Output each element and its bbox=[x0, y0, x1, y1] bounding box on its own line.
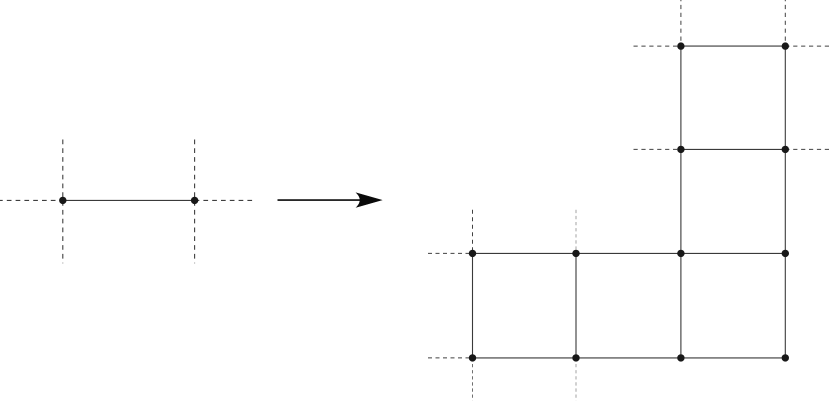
dashed grid extension left of node P1 bbox=[0, 199, 63, 201]
wire: horizontal edge C-D bbox=[681, 148, 785, 150]
node I bbox=[469, 354, 476, 361]
arrow shaft bbox=[278, 199, 368, 201]
node B bbox=[782, 42, 789, 49]
node E bbox=[469, 250, 476, 257]
node D bbox=[782, 146, 789, 153]
wire: vertical line B-D-H-L bbox=[784, 46, 786, 358]
node A bbox=[677, 42, 684, 49]
dashed vertical grid line through node P2 bbox=[194, 140, 196, 264]
dashed extension up from node A bbox=[680, 0, 682, 46]
node P1 bbox=[59, 197, 66, 204]
node F bbox=[572, 250, 579, 257]
wire: vertical line A-C-G-K bbox=[680, 46, 682, 358]
dashed extension right of node D bbox=[785, 148, 830, 150]
dashed grid extension right of node P2 bbox=[195, 199, 254, 201]
dashed extension left of node C bbox=[634, 148, 681, 150]
dashed extension up from node B bbox=[784, 0, 786, 46]
dashed extension left of node A bbox=[634, 45, 681, 47]
dashed extension up from node E bbox=[472, 210, 474, 254]
node P2 bbox=[191, 197, 198, 204]
wire: vertical edge F-J bbox=[575, 253, 577, 358]
wire: bottom row I-J-K-L bbox=[473, 357, 786, 359]
node L bbox=[782, 354, 789, 361]
node C bbox=[677, 146, 684, 153]
dashed extension left of node E bbox=[428, 252, 473, 254]
wire: solid edge P1-P2 bbox=[63, 199, 195, 201]
arrow head bbox=[357, 193, 382, 207]
dashed extension down from node I (medium) bbox=[472, 358, 474, 401]
dashed extension down from node J (light) bbox=[575, 358, 577, 401]
wire: top edge of upper square A-B bbox=[681, 45, 785, 47]
dashed extension right of node B bbox=[785, 45, 830, 47]
left figure: single edge graph bbox=[0, 140, 254, 264]
node H bbox=[782, 250, 789, 257]
dashed vertical grid line through node P1 bbox=[62, 140, 64, 264]
arrow: maps-to arrow between figures bbox=[278, 193, 382, 207]
dashed extension up from node F (light) bbox=[575, 210, 577, 254]
node G bbox=[677, 250, 684, 257]
node J bbox=[572, 354, 579, 361]
right figure: L-shaped grid of 5 squares bbox=[428, 0, 830, 401]
dashed extension left of node I bbox=[428, 357, 473, 359]
wire: vertical edge E-I bbox=[472, 253, 474, 358]
node K bbox=[677, 354, 684, 361]
wire: horizontal row E-F-G-H bbox=[473, 252, 786, 254]
